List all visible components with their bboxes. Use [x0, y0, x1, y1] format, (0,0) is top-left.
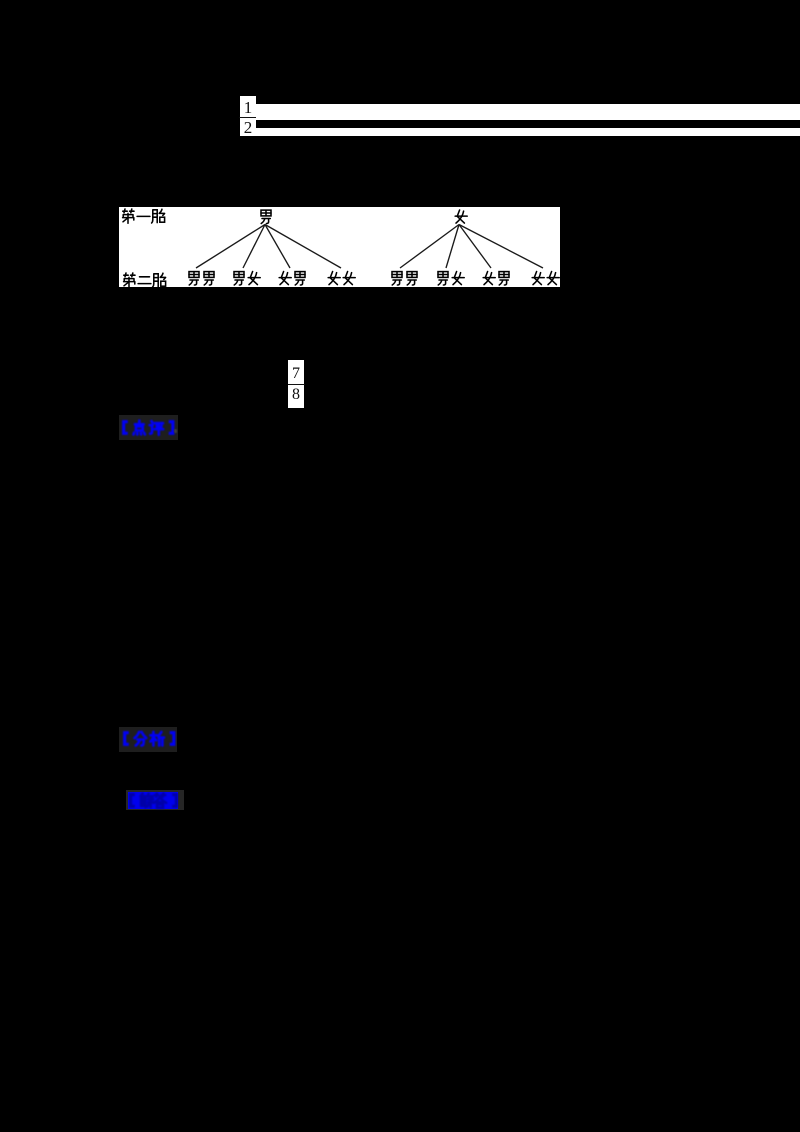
- left subtree leaf labels: [189, 272, 355, 286]
- tree diagram white panel: [119, 207, 560, 287]
- equation image: fraction 1/2 white box: [240, 96, 256, 136]
- equation image: fraction 7/8 white box: [288, 360, 304, 408]
- denominator 8: [288, 387, 304, 403]
- numerator 7: [288, 366, 304, 382]
- section label: analysis (fen xi) halo: [119, 727, 177, 752]
- numerator 1: [240, 99, 256, 116]
- white equation strip (upper): [256, 104, 800, 120]
- section label: answer (jie da) selected-blue block: [128, 792, 178, 809]
- node: female root: [455, 210, 467, 223]
- node: male root: [261, 210, 271, 223]
- fraction bar 1/2: [239, 117, 256, 119]
- section label: answer (jie da): [128, 792, 178, 809]
- label: first-child row (di yi tai): [123, 209, 165, 223]
- denominator 2: [240, 119, 256, 136]
- fraction bar 7/8: [288, 384, 305, 386]
- glyph definitions (CJK drawn as strokes): [0, 0, 1, 1]
- period after comment label (faint): [174, 429, 177, 433]
- right subtree leaf labels: [392, 272, 559, 286]
- section label: answer (jie da) halo: [126, 790, 184, 810]
- section label: comment (dian ping) halo: [119, 415, 178, 440]
- section label: comment (dian ping): [121, 419, 177, 438]
- white equation strip (lower): [256, 128, 800, 136]
- tree diagram contents: [119, 207, 560, 287]
- section label: analysis (fen xi): [122, 730, 178, 749]
- right subtree branch lines: [400, 225, 543, 269]
- left subtree branch lines: [196, 225, 341, 269]
- label: second-child row (di er tai): [124, 273, 166, 287]
